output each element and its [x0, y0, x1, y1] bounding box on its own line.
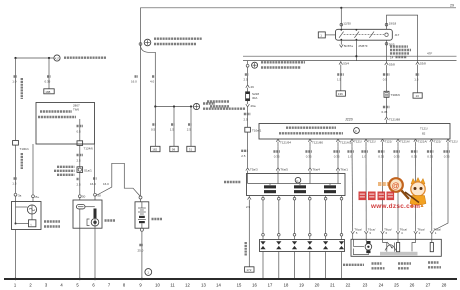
connector T6a/5: [276, 168, 288, 174]
fuse S228 30A: [207, 92, 259, 107]
svg-text:T121A/2: T121A/2: [340, 140, 352, 144]
junction ground 15.5: [14, 278, 16, 280]
transformer coil at 300: [294, 185, 306, 188]
svg-text:0.5: 0.5: [151, 128, 156, 132]
node terminal line A (instrument panel): [14, 55, 106, 61]
transformer coil at 270: [264, 185, 276, 188]
wire 53/4 drop to ref 136: [336, 61, 349, 97]
svg-text:T121/: T121/: [354, 139, 362, 143]
wire T5a/2 to ref 172: [245, 196, 254, 273]
wire black 2.5: [244, 67, 249, 84]
svg-text:1.5: 1.5: [337, 78, 342, 82]
svg-text:31: 31: [189, 148, 193, 152]
connector T6ca/5: [351, 228, 362, 240]
connector T6ca/2: [414, 228, 425, 240]
svg-text:@: @: [392, 182, 400, 191]
wire red 16.0 label: [131, 77, 138, 84]
svg-text:50: 50: [82, 195, 86, 199]
wire ECU to throttle pin 1: [351, 147, 354, 231]
svg-text:10: 10: [155, 283, 160, 288]
wire spark plug lead 278.8: [278, 196, 281, 240]
wire spark to ground 325.6: [325, 252, 327, 280]
wire spark to ground 278.8: [278, 252, 280, 280]
svg-text:T121/88: T121/88: [389, 118, 400, 122]
op-amp: ECU J220 engine control unit box: [259, 124, 450, 140]
connector T6ca/6: [381, 228, 392, 240]
wire 16.0 from box corner to starter 30: [94, 144, 96, 193]
svg-text:188: 188: [45, 90, 50, 94]
svg-text:2.5: 2.5: [241, 154, 246, 158]
spark gap 294.5: [292, 241, 297, 244]
svg-text:93: 93: [435, 0, 439, 1]
junction ground 95: [94, 278, 96, 280]
svg-text:T10e/1: T10e/1: [252, 128, 262, 132]
wire starter to ground bus tracks 5,6: [79, 228, 81, 279]
svg-text:0.35: 0.35: [45, 80, 51, 84]
svg-text:1.5: 1.5: [170, 128, 175, 132]
svg-text:26: 26: [410, 283, 415, 288]
wire spark plug lead 294.5: [293, 196, 296, 240]
wire ECU to coil T6a/4: [309, 147, 311, 168]
svg-text:www.dzsc.com: www.dzsc.com: [370, 203, 420, 210]
pin T124/6: [77, 141, 94, 167]
svg-text:82: 82: [422, 132, 426, 136]
relay J17 fuel pump: [336, 29, 400, 41]
svg-text:2.5: 2.5: [187, 128, 192, 132]
svg-text:17: 17: [268, 283, 273, 288]
label fuel pump relay text: [390, 47, 411, 60]
spark gap 309.8: [307, 241, 312, 244]
terminal battery minus + ground wire track9: [138, 228, 144, 279]
connector T6a/4: [308, 168, 320, 174]
wire to connector 188 (black 0.35): [45, 58, 51, 89]
svg-text:1.5: 1.5: [414, 78, 419, 82]
label starter: [105, 219, 116, 221]
svg-text:12: 12: [185, 283, 190, 288]
svg-text:T6a/4: T6a/4: [312, 168, 320, 172]
wire black 2.5 to starter 50: [77, 172, 82, 194]
svg-text:118: 118: [356, 0, 361, 1]
svg-text:B+: B+: [36, 195, 40, 199]
pin T121/118: [347, 0, 361, 159]
pin T10e/1: [241, 127, 261, 167]
wire red 4.0 branch: [141, 45, 156, 106]
svg-text:T6a/1: T6a/1: [340, 168, 348, 172]
component S1a/1 fuse: [54, 167, 92, 175]
svg-text:12/30: 12/30: [343, 22, 351, 26]
wire spark plug lead 325.6: [324, 196, 327, 240]
ground bus: [4, 278, 457, 280]
svg-text:J17: J17: [395, 33, 400, 37]
wire red 2.5 to ref 31: [187, 107, 196, 152]
terminal 30 starter: [94, 193, 101, 200]
wire spark to ground 263: [262, 252, 264, 280]
svg-text:2.5: 2.5: [246, 205, 251, 209]
svg-text:53/8: 53/8: [420, 62, 426, 66]
label generator/regulator: [44, 222, 60, 227]
svg-text:T121/80: T121/80: [312, 140, 323, 144]
track numbers: [14, 283, 447, 288]
wire spark plug lead 341.5: [340, 196, 343, 240]
svg-text:T121/: T121/: [368, 139, 376, 143]
svg-text:T306/9: T306/9: [391, 93, 401, 97]
terminal 50 starter: [78, 195, 85, 200]
svg-text:15: 15: [237, 283, 242, 288]
svg-text:0.35: 0.35: [378, 155, 384, 159]
svg-text:19/18: 19/18: [389, 22, 397, 26]
svg-text:2.5: 2.5: [244, 78, 249, 82]
label angle sensor 1: [372, 264, 385, 269]
connector T5a/3: [246, 168, 258, 174]
wire top supply bus 30: [141, 8, 457, 196]
svg-text:1.5: 1.5: [12, 182, 17, 186]
svg-text:47F: 47F: [427, 52, 432, 56]
wire red/black 0.5 inside box: [77, 119, 84, 141]
battery A: [135, 202, 149, 228]
label throttle positioner motor: [343, 264, 364, 266]
svg-text:A17: A17: [55, 56, 60, 60]
svg-text:20: 20: [315, 283, 320, 288]
terminal 3a on generator: [14, 193, 22, 201]
svg-text:25.0: 25.0: [138, 249, 144, 253]
pin T121/96: [378, 0, 392, 159]
pin T121/117: [361, 0, 375, 159]
svg-text:J220: J220: [345, 118, 353, 122]
wire battery-starter link 16.0: [90, 163, 140, 196]
wire generator B+ (16.0) from box corner: [32, 144, 40, 202]
svg-text:0.35: 0.35: [274, 155, 280, 159]
svg-text:13: 13: [201, 283, 206, 288]
svg-text:0.35: 0.35: [382, 110, 388, 114]
junction connector on wire 30: [139, 43, 142, 46]
svg-text:25/87F: 25/87F: [358, 44, 368, 48]
wire ECU to throttle pin 4: [397, 147, 399, 231]
svg-text:98: 98: [172, 148, 176, 152]
label angle sensor 2: [398, 264, 411, 269]
svg-text:24: 24: [379, 283, 384, 288]
svg-text:84: 84: [402, 0, 406, 1]
svg-text:27: 27: [426, 283, 431, 288]
svg-text:18: 18: [284, 283, 289, 288]
resistor sensor 1: [397, 243, 400, 252]
svg-text:23: 23: [363, 283, 368, 288]
node ref 1 box: [318, 32, 335, 38]
svg-text:92: 92: [452, 0, 456, 1]
wire spark to ground 294.5: [294, 252, 296, 280]
wire ECU to coil T6a/5: [277, 147, 279, 168]
pin T121/93: [427, 0, 441, 159]
svg-text:T6/6: T6/6: [73, 108, 79, 112]
pin T121A/84: [393, 0, 409, 159]
svg-text:25: 25: [394, 283, 399, 288]
svg-text:T5a/3: T5a/3: [250, 168, 258, 172]
pin T121/80: [305, 139, 323, 158]
svg-text:0.35: 0.35: [334, 155, 340, 159]
relay pin 87F to rail A: [355, 40, 368, 60]
label ignition coil: [224, 181, 241, 183]
svg-text:30A: 30A: [252, 96, 257, 100]
box throttle valve control unit J338: [351, 239, 441, 256]
pin T10b/1: [12, 141, 29, 194]
wire rail A 47F: [243, 52, 457, 57]
svg-text:29: 29: [450, 4, 454, 8]
wire ground strap engine (black 1.0) track1: [12, 58, 22, 141]
wire spark to ground 341.5: [341, 252, 343, 280]
pin T121A/85: [411, 0, 427, 159]
box automatic transmission circuit ref: [36, 103, 95, 145]
svg-text:0.35: 0.35: [411, 155, 417, 159]
svg-text:1.0: 1.0: [348, 155, 353, 159]
wire 53/8 drop to ref 13: [413, 61, 426, 99]
svg-text:S1a/1: S1a/1: [84, 169, 92, 173]
svg-text:182: 182: [152, 148, 157, 152]
svg-text:14: 14: [216, 283, 221, 288]
connector T6a/1: [336, 168, 348, 174]
connector T6ca/4: [396, 228, 407, 240]
ground point 1: [145, 269, 152, 276]
pin T121/94: [273, 139, 291, 158]
pin T121/92: [443, 0, 457, 159]
svg-text:0.5: 0.5: [77, 130, 82, 134]
svg-text:0.35: 0.35: [306, 155, 312, 159]
svg-text:22: 22: [346, 283, 351, 288]
wire ECU pin T121/92 to throttle: [434, 147, 449, 231]
terminal battery plus: [139, 196, 142, 202]
transformer coil at 330: [324, 185, 336, 188]
label battery: [152, 218, 163, 220]
relay pin 87 up-over path: [385, 15, 417, 61]
svg-text:T121A/: T121A/: [400, 139, 410, 143]
svg-text:T10b/1: T10b/1: [20, 147, 30, 151]
svg-text:29a: 29a: [251, 104, 256, 108]
node ref 188: [44, 89, 54, 94]
svg-text:4.0: 4.0: [150, 80, 155, 84]
spark gap 263: [260, 241, 265, 244]
svg-text:T121/94: T121/94: [280, 140, 291, 144]
svg-text:5b/87a: 5b/87a: [344, 44, 354, 48]
svg-text:T121/: T121/: [434, 139, 442, 143]
wire 53/8 drop through T306 to ECU T121/88: [382, 62, 401, 123]
svg-text:T121A/: T121A/: [418, 139, 428, 143]
wire ECU to throttle pin 3: [382, 147, 384, 231]
svg-text:0.35: 0.35: [394, 155, 400, 159]
wire ECU to throttle pin 2: [365, 147, 367, 231]
svg-text:13: 13: [416, 94, 420, 98]
svg-text:2.5: 2.5: [77, 183, 82, 187]
svg-text:14: 14: [390, 55, 394, 59]
watermark dzsc logo: [359, 178, 427, 211]
spark gap 325.6: [323, 241, 328, 244]
node positive supply point 30: [144, 39, 202, 46]
svg-text:0.35: 0.35: [427, 155, 433, 159]
node positive connection 30T on rail: [246, 61, 305, 69]
svg-text:1.0: 1.0: [362, 155, 367, 159]
resistor sensor 2: [430, 243, 433, 252]
svg-text:T121/: T121/: [450, 139, 458, 143]
wire spark to ground 309.8: [309, 252, 311, 280]
svg-text:53/8: 53/8: [389, 62, 395, 66]
svg-text:16: 16: [252, 283, 257, 288]
svg-text:96: 96: [386, 0, 390, 1]
svg-text:11: 11: [170, 283, 175, 288]
node junction positive line: [154, 103, 245, 109]
generator C with voltage regulator: [12, 202, 42, 230]
svg-text:19: 19: [299, 283, 304, 288]
svg-text:28: 28: [442, 283, 447, 288]
connector 29: [246, 85, 254, 92]
svg-text:30: 30: [97, 193, 101, 197]
box spark plug connectors Q: [260, 240, 345, 252]
svg-text:16.0: 16.0: [103, 182, 109, 186]
svg-text:T121/: T121/: [420, 127, 428, 131]
label throttle control unit: [428, 263, 441, 268]
svg-text:t: t: [31, 222, 32, 226]
svg-text:3a: 3a: [18, 193, 22, 197]
svg-text:0.5: 0.5: [383, 78, 388, 82]
svg-text:2.5: 2.5: [244, 118, 249, 122]
wire ECU to throttle pin 6: [431, 147, 433, 231]
connector T6ca/1: [430, 228, 441, 240]
svg-text:T124/6: T124/6: [84, 147, 94, 151]
starter B motor: [73, 200, 102, 228]
wire ECU to coil T6a/1: [337, 147, 339, 168]
svg-text:0.35: 0.35: [444, 155, 450, 159]
wire spark plug lead 309.8: [309, 196, 312, 240]
svg-text:136: 136: [338, 92, 343, 96]
svg-text:T121/: T121/: [385, 139, 393, 143]
junction ground 141.9: [141, 278, 143, 280]
motor V60 throttle positioner: [366, 241, 370, 244]
wire generator to ground bus track1: [15, 230, 17, 280]
svg-text:2.5: 2.5: [77, 159, 82, 163]
svg-text:85: 85: [419, 0, 423, 1]
relay pin 85 down wire: [385, 40, 395, 62]
wire ECU to throttle pin 5: [415, 147, 417, 231]
relay pin 87a stub: [340, 40, 354, 48]
transformer: ignition coil pack N box: [247, 174, 346, 196]
spark gap 278.8: [276, 241, 281, 244]
svg-text:21: 21: [330, 283, 335, 288]
connector T6ca/3: [364, 228, 375, 240]
svg-text:29: 29: [251, 85, 255, 89]
svg-text:53/4: 53/4: [343, 62, 349, 66]
potentiometer angle sensor 1: [382, 239, 384, 242]
pin T121A/2: [333, 139, 351, 158]
wire spark plug lead 263: [262, 196, 265, 240]
svg-text:1.0: 1.0: [12, 80, 17, 84]
wire bus to relay pin 30: [340, 7, 351, 30]
wire red 0.5 to ref 182: [151, 107, 160, 152]
connector 29a: [244, 101, 256, 128]
wire rail B: [243, 60, 457, 62]
svg-text:T6a/5: T6a/5: [280, 168, 288, 172]
svg-text:117: 117: [370, 0, 375, 1]
spark gap 341.5: [339, 241, 344, 244]
svg-text:172: 172: [246, 268, 251, 272]
wire red 1.5 to ref 98: [170, 107, 179, 152]
svg-text:16.0: 16.0: [131, 80, 137, 84]
svg-text:16.0: 16.0: [90, 182, 96, 186]
junction ground 79.8: [79, 278, 81, 280]
